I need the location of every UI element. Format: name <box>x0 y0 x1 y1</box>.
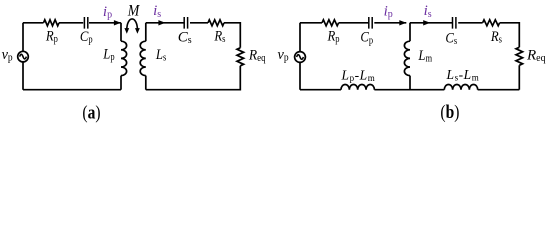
label i_p (a) <box>103 4 112 21</box>
voltage source v_p (circuit b) <box>295 52 306 63</box>
svg-text:vp: vp <box>278 47 289 64</box>
current arrow i_p (a) <box>114 20 121 25</box>
svg-text:Req: Req <box>526 48 546 65</box>
inductor L_p-L_m (b) <box>341 84 374 89</box>
svg-text:Rs: Rs <box>490 29 502 46</box>
label C_s (a) <box>178 30 192 47</box>
svg-text:Cp: Cp <box>80 29 93 46</box>
label R_s (a) <box>213 29 225 46</box>
svg-text:Ls-Lm: Ls-Lm <box>446 67 480 83</box>
svg-text:Ls: Ls <box>155 47 167 64</box>
label M (a) <box>127 3 141 20</box>
label C_p (a) <box>80 29 93 46</box>
current arrow i_p (b) <box>399 20 406 25</box>
svg-text:ip: ip <box>103 4 112 21</box>
label i_s (a) <box>153 3 161 20</box>
svg-text:Rs: Rs <box>213 29 225 46</box>
wire top rail secondary (a) <box>146 23 241 48</box>
inductor L_s-L_m (b) <box>444 84 477 89</box>
voltage source v_p (circuit a) <box>18 51 29 62</box>
capacitor C_s (b) <box>453 17 456 29</box>
wire right rail + bottom secondary (a) <box>146 66 241 90</box>
svg-text:Rp: Rp <box>327 29 340 46</box>
svg-text:Lp-Lm: Lp-Lm <box>341 67 376 83</box>
resistor R_eq (a) <box>237 48 244 66</box>
svg-text:ip: ip <box>384 3 393 20</box>
capacitor C_p (b) <box>369 17 372 29</box>
resistor R_p (b) <box>322 20 339 26</box>
label L_m (b) <box>417 48 432 65</box>
svg-text:Cp: Cp <box>360 30 373 47</box>
label i_p (b) <box>384 3 393 20</box>
label i_s (b) <box>424 3 432 20</box>
capacitor C_s (a) <box>184 17 187 29</box>
capacitor C_p (a) <box>84 17 87 29</box>
svg-text:(b): (b) <box>440 102 459 123</box>
svg-text:M: M <box>127 3 141 20</box>
wire top rail primary (a) <box>23 22 121 24</box>
label R_p (b) <box>327 29 340 46</box>
resistor R_s (b) <box>483 20 500 26</box>
label (a) <box>82 102 100 123</box>
label L_s (a) <box>155 47 167 64</box>
wire left rail (b) <box>299 23 301 90</box>
inductor L_m shunt coil (b) <box>409 23 411 41</box>
inductor L_p primary coil (a) <box>120 23 122 41</box>
current arrow i_s (b) <box>423 20 430 25</box>
label C_p (b) <box>360 30 373 47</box>
wire left rail (a) <box>22 23 24 90</box>
mutual inductance arc M (a) <box>127 19 138 30</box>
label R_eq (a) <box>248 47 266 64</box>
label v_p (b) <box>278 47 289 64</box>
label R_s (b) <box>490 29 502 46</box>
svg-text:is: is <box>424 3 432 20</box>
svg-text:Lm: Lm <box>417 48 432 65</box>
label L_p (a) <box>102 47 115 64</box>
svg-text:Cs: Cs <box>445 30 457 47</box>
svg-text:is: is <box>153 3 161 20</box>
svg-text:Cs: Cs <box>178 30 192 47</box>
svg-text:(a): (a) <box>82 102 100 123</box>
label R_eq (b) <box>526 48 546 65</box>
svg-text:Rp: Rp <box>45 29 58 46</box>
current arrow i_s (a) <box>158 20 165 25</box>
wire top rail (b) <box>300 23 519 48</box>
wire right rail (b) <box>518 65 520 89</box>
label v_p (a) <box>2 47 13 64</box>
inductor L_s secondary coil (a) <box>145 23 147 41</box>
svg-text:Lp: Lp <box>102 47 115 64</box>
resistor R_p (a) <box>44 20 60 26</box>
wire bottom rail (b) <box>300 89 519 91</box>
wire bottom rail primary (a) <box>23 89 121 91</box>
label (b) <box>440 102 459 123</box>
svg-text:Req: Req <box>248 47 266 64</box>
resistor R_s (a) <box>208 20 224 26</box>
resistor R_eq (b) <box>516 47 523 65</box>
label C_s (b) <box>445 30 457 47</box>
svg-text:vp: vp <box>2 47 13 64</box>
label R_p (a) <box>45 29 58 46</box>
